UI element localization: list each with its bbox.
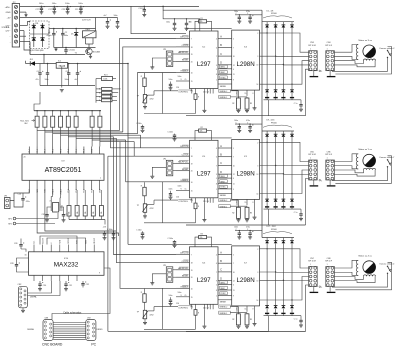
motor coil vertical [356, 260, 358, 275]
resistor R13 10k [100, 190, 102, 206]
diode D20 top [291, 238, 293, 241]
wire sense nets [230, 306, 238, 308]
MCU bottom pin 1 [28, 180, 30, 190]
wire control net [154, 306, 178, 308]
svg-text:C27: C27 [35, 9, 38, 11]
svg-text:SENSE-2: SENSE-2 [220, 307, 228, 309]
svg-text:C30: C30 [43, 285, 46, 287]
svg-text:CN6: CN6 [327, 151, 331, 153]
svg-text:CW/CCW: CW/CCW [180, 146, 189, 148]
wire L298N outputs to CN [260, 141, 268, 143]
svg-text:2: 2 [257, 249, 258, 251]
MCU top pin 17 [52, 147, 54, 155]
svg-text:8k2: 8k2 [25, 123, 28, 125]
wire Vref pin [176, 296, 190, 298]
svg-text:JP3: JP3 [163, 49, 166, 51]
svg-text:5: 5 [233, 255, 234, 257]
wire diode lower rail [264, 99, 302, 101]
wire ch2 CW/CCW run [111, 93, 177, 148]
wire ch1 CW/CCW run [120, 39, 176, 131]
MCU bottom pin 2 [36, 180, 38, 190]
MCU top pin 13 [83, 147, 85, 155]
svg-text:15: 15 [245, 309, 247, 311]
ground CN female bar [329, 180, 331, 186]
svg-text:11: 11 [233, 184, 235, 186]
wire output column [275, 243, 277, 305]
L297 bottom pins [191, 89, 193, 94]
MCU top pin 15 [67, 147, 69, 155]
svg-text:18: 18 [191, 47, 193, 49]
svg-text:15: 15 [245, 202, 247, 204]
svg-text:CN5: CN5 [310, 151, 314, 153]
svg-text:C17: C17 [48, 9, 51, 11]
wire output column [291, 137, 293, 199]
IC L297 number 6 [190, 247, 219, 304]
svg-text:100k: 100k [103, 79, 107, 81]
bridge diodes D1-D4 [33, 23, 35, 47]
wire cap feeder ch1 [163, 10, 200, 31]
diode D1 top [266, 22, 268, 25]
svg-text:L297: L297 [197, 170, 211, 177]
MCU bottom pin 3 [44, 180, 46, 190]
wire ch1 CLOCK run [123, 47, 176, 132]
svg-text:4702: 4702 [150, 99, 154, 101]
svg-text:R1OUT: R1OUT [94, 238, 96, 244]
svg-text:L298N: L298N [236, 277, 254, 284]
svg-text:INH1: INH1 [220, 282, 224, 284]
wire ch3 CW/CCW run [114, 137, 177, 255]
wire lower rail drop [268, 316, 270, 332]
svg-text:Koncno stikalo Y: Koncno stikalo Y [380, 156, 396, 159]
svg-text:C33 10n: C33 10n [138, 8, 145, 10]
motor coil horizontal [364, 59, 376, 60]
svg-text:SIP 10 F: SIP 10 F [325, 45, 333, 47]
diode D12 top [291, 131, 293, 134]
svg-text:100n: 100n [178, 292, 182, 294]
svg-text:1: 1 [216, 295, 217, 297]
diode D3 top [282, 22, 284, 25]
diode D10 top [275, 131, 277, 134]
ground DB9 [22, 308, 24, 310]
wire output column [282, 137, 284, 199]
svg-text:1: 1 [216, 80, 217, 82]
resistor R11 10k [84, 190, 86, 206]
svg-text:C16: C16 [176, 196, 179, 198]
svg-text:10k: 10k [93, 211, 95, 214]
wire limit-input verticals to resistors [117, 88, 121, 90]
svg-text:CW/CCW: CW/CCW [180, 253, 189, 255]
svg-text:SIP 10 M: SIP 10 M [308, 261, 316, 263]
svg-text:SP1: SP1 [8, 219, 12, 221]
svg-text:P1.0: P1.0 [84, 149, 86, 153]
capacitor C23 100n [113, 231, 115, 234]
capacitor C30 1u below MAX232 [39, 281, 41, 284]
diode D4 top [291, 22, 293, 25]
svg-text:1: 1 [310, 264, 311, 266]
L297 bottom pins [191, 198, 193, 203]
svg-text:4702: 4702 [150, 315, 154, 317]
resistor sense B 0R5 [245, 207, 249, 218]
resistor R control [194, 203, 197, 209]
svg-text:1k: 1k [99, 89, 101, 91]
wire ch2 CLOCK run [108, 155, 176, 157]
svg-text:2 13 14: 2 13 14 [203, 308, 209, 310]
wire: +5V top rail [20, 5, 200, 7]
svg-text:5: 5 [233, 148, 234, 150]
svg-text:IC6: IC6 [202, 262, 205, 264]
motor M1 X axis [363, 45, 376, 58]
resistor R7 [102, 95, 113, 98]
svg-text:CN2: CN2 [18, 284, 22, 286]
svg-text:IC3: IC3 [244, 47, 247, 49]
svg-text:L298N: L298N [236, 61, 254, 68]
svg-text:INH2: INH2 [220, 72, 224, 74]
svg-text:C16: C16 [176, 303, 179, 305]
wire switch leads [332, 273, 388, 287]
svg-text:13: 13 [257, 174, 259, 176]
svg-text:3: 3 [257, 56, 258, 58]
svg-text:RESET: RESET [182, 169, 189, 171]
svg-text:6: 6 [233, 178, 234, 180]
capacitor C33 10n on +5V rail [143, 6, 145, 9]
svg-text:10k: 10k [85, 211, 87, 214]
capacitor C20 [47, 207, 51, 215]
motor coil vertical [356, 154, 358, 169]
svg-text:100n: 100n [114, 15, 118, 17]
wire caps to supply rail [235, 230, 262, 232]
svg-text:8: 8 [253, 93, 254, 95]
wire sense feedback [218, 83, 232, 85]
diode D22 bottom [274, 306, 278, 309]
svg-text:4700u: 4700u [47, 35, 52, 37]
svg-text:JP1: JP1 [4, 196, 7, 198]
svg-text:240: 240 [189, 22, 192, 24]
svg-text:7: 7 [233, 47, 234, 49]
svg-text:R3: R3 [250, 103, 252, 105]
wire motor supply vertical right [261, 10, 263, 237]
wire diode top rail [262, 130, 294, 132]
wire CN3 pin to ground rail [306, 69, 309, 116]
wire control net [154, 199, 178, 201]
MCU bottom pin 6 [67, 180, 69, 190]
wire caps to supply rail [235, 123, 262, 125]
svg-text:100n: 100n [178, 186, 182, 188]
svg-text:AT89C2051: AT89C2051 [45, 167, 82, 174]
svg-text:CONTROL: CONTROL [178, 307, 189, 309]
wire resistor left bus [95, 79, 97, 103]
capacitor C22 100n [104, 231, 106, 234]
svg-text:C24: C24 [18, 194, 21, 196]
MCU bottom pin 8 [83, 180, 85, 190]
svg-text:P 1: P 1 [191, 91, 194, 93]
wire CN3 pin to ground rail [306, 179, 309, 226]
resistor RN7 8k2 [91, 111, 93, 117]
diode D18 top [275, 238, 277, 241]
svg-text:D17...D24: D17...D24 [267, 226, 277, 228]
wire lower node rail [54, 47, 96, 49]
wire JD1 node [26, 63, 31, 65]
svg-text:C26: C26 [14, 243, 17, 245]
diode D15 bottom [282, 199, 286, 202]
diode D13 bottom [265, 199, 269, 202]
diode D5 bottom [265, 90, 269, 93]
wire cable lines [53, 322, 86, 324]
svg-text:R2: R2 [232, 103, 234, 105]
svg-text:8: 8 [216, 290, 217, 292]
diode D9 top [266, 131, 268, 134]
motor coil vertical [356, 45, 358, 60]
svg-text:PC: PC [91, 342, 96, 346]
MAX232 top pin [93, 245, 95, 252]
regulator IC1 78L05 [56, 63, 67, 69]
svg-text:5: 5 [321, 181, 322, 183]
diode D14 bottom [274, 199, 278, 202]
capacitor C8 4u7 aux [107, 18, 109, 22]
terminal SP1 [13, 217, 16, 220]
capacitor C2 100n [62, 29, 64, 34]
ground L297 [203, 94, 205, 111]
wire resistor network top rail [34, 110, 101, 112]
MAX232 top pin [67, 245, 69, 252]
svg-text:INH2: INH2 [220, 181, 224, 183]
resistor R osc [143, 78, 146, 87]
diode D23 bottom [282, 306, 286, 309]
channel Z supply rail [186, 243, 232, 245]
svg-text:INH1: INH1 [220, 67, 224, 69]
resistor R4 100k [102, 77, 113, 81]
resistor R6 [102, 91, 113, 94]
wire regulator output +5V [68, 63, 129, 65]
MCU top pin 18 [44, 147, 46, 155]
resistor RN6 8k2 [75, 111, 77, 117]
wire phase lines A B C D [218, 254, 232, 256]
svg-text:R14...R21: R14...R21 [20, 120, 29, 122]
wire ch3 ENABLE run [120, 142, 176, 289]
wire switch leads [332, 58, 388, 72]
svg-text:MAX232: MAX232 [54, 262, 79, 269]
ground L297 [203, 203, 205, 220]
svg-text:18: 18 [191, 263, 193, 265]
svg-text:5: 5 [216, 178, 217, 180]
MAX232 bottom pin [76, 275, 78, 281]
capacitor C24 470u [22, 196, 24, 199]
wire lower rail drop [268, 100, 270, 116]
svg-text:C 100n: C 100n [136, 123, 142, 125]
wire MAX232 RX TX to MCU [37, 190, 118, 236]
svg-text:4: 4 [216, 255, 217, 257]
MCU bottom pin 9 [91, 180, 93, 190]
svg-text:CN1: CN1 [35, 23, 38, 25]
svg-text:16: 16 [25, 255, 27, 257]
MAX232 top pin [50, 245, 52, 252]
MAX232 bottom pin [67, 275, 69, 281]
wire relay to transistor [85, 38, 87, 44]
svg-text:D1...D8: D1...D8 [267, 10, 275, 12]
svg-text:4: 4 [216, 39, 217, 41]
resistor R12 10k [92, 190, 94, 206]
svg-text:SIP 10 M: SIP 10 M [308, 154, 316, 156]
svg-text:REL1: REL1 [86, 29, 91, 31]
L298N bottom pins [236, 90, 238, 96]
svg-text:9: 9 [233, 80, 234, 82]
wire osc resistor leads [195, 131, 199, 141]
svg-text:8: 8 [253, 309, 254, 311]
svg-text:10: 10 [233, 272, 235, 274]
resistor R control [194, 310, 197, 316]
svg-text:JP5: JP5 [163, 265, 166, 267]
MCU bottom pin 7 [75, 180, 77, 190]
wire output column [266, 137, 268, 199]
wire INH1 INH2 SYNC lines [218, 177, 232, 179]
diode D11 top [282, 131, 284, 134]
svg-text:11: 11 [233, 290, 235, 292]
connector JP3 [166, 51, 173, 67]
wire output column [275, 137, 277, 199]
svg-text:+5V: +5V [7, 18, 11, 20]
MAX232 bottom pin [50, 275, 52, 281]
svg-text:P1.1: P1.1 [76, 149, 78, 153]
svg-text:7: 7 [233, 157, 234, 159]
svg-text:CL: CL [185, 79, 187, 81]
svg-text:C6: C6 [66, 71, 68, 73]
svg-text:5: 5 [321, 71, 322, 73]
svg-text:4: 4 [216, 148, 217, 150]
channel X supply rail [186, 28, 232, 30]
svg-text:7: 7 [191, 254, 192, 256]
wire control loop frame [162, 182, 164, 223]
IC L298N number 5 [232, 139, 260, 199]
svg-text:GND: GND [6, 12, 11, 14]
svg-text:ENABLE: ENABLE [181, 179, 190, 182]
MAX232 top pin [59, 245, 61, 252]
MAX232 top pin [33, 245, 35, 252]
svg-text:Motor za Z os: Motor za Z os [359, 255, 373, 258]
resistor R8 [102, 99, 113, 102]
svg-text:9: 9 [216, 65, 217, 67]
resistor RN8 8k2 [99, 111, 101, 117]
svg-text:6: 6 [216, 47, 217, 49]
svg-text:RESET: RESET [182, 60, 189, 62]
svg-text:100n: 100n [65, 79, 69, 81]
L298N bottom pins [236, 306, 238, 312]
svg-text:HALF/FULL: HALF/FULL [178, 51, 189, 54]
svg-text:CL: CL [185, 188, 187, 190]
wire MCU VCC [92, 64, 108, 147]
wire output column [291, 243, 293, 305]
wire osc resistor leads [195, 237, 199, 247]
wire JP to pins [173, 162, 176, 164]
svg-text:13: 13 [257, 280, 259, 282]
svg-text:9: 9 [233, 189, 234, 191]
svg-text:R1: R1 [201, 18, 203, 20]
svg-text:7: 7 [191, 39, 192, 41]
svg-text:15: 15 [191, 297, 193, 299]
svg-text:R2: R2 [201, 127, 203, 129]
svg-text:CN3: CN3 [310, 42, 314, 44]
motor coil horizontal [364, 275, 376, 277]
svg-text:STIKALA: STIKALA [2, 26, 11, 29]
wire osc resistor leads [195, 21, 199, 31]
diode D8 bottom [290, 90, 294, 93]
svg-text:22k: 22k [200, 131, 203, 133]
wire SP leads [16, 213, 58, 219]
motor M2 Y axis [363, 154, 376, 167]
terminal SP2 [13, 222, 16, 225]
connector CN2 DB9FA [18, 286, 27, 308]
svg-text:RESET: RESET [182, 275, 189, 277]
svg-text:14: 14 [257, 300, 259, 302]
svg-text:CLOCK: CLOCK [182, 45, 190, 47]
svg-text:22k: 22k [200, 21, 203, 23]
svg-text:DB9F9: DB9F9 [97, 329, 103, 331]
wire L298N outputs to CN [260, 32, 268, 34]
wire diode lower rail [264, 315, 302, 317]
svg-text:14: 14 [257, 84, 259, 86]
MCU top pin 16 [60, 147, 62, 155]
wire MAX232 to cable [52, 268, 110, 320]
resistor sense B 0R5 [245, 98, 249, 109]
wire INH1 INH2 SYNC lines [218, 284, 232, 286]
svg-text:CN8: CN8 [327, 258, 331, 260]
wire ch2 ENABLE run [126, 140, 176, 182]
svg-text:8: 8 [216, 74, 217, 76]
svg-text:4702: 4702 [150, 208, 154, 210]
ground CN male bar [313, 70, 315, 76]
svg-text:IC4: IC4 [202, 156, 205, 158]
svg-text:GND: GND [99, 188, 101, 193]
wire connector to rails [20, 24, 28, 26]
ground L297 [203, 309, 205, 326]
svg-text:5: 5 [216, 69, 217, 71]
svg-text:Koncno stikalo Z: Koncno stikalo Z [380, 263, 396, 266]
resistor RN2 8k2 [44, 111, 46, 117]
svg-text:C 1u: C 1u [294, 212, 298, 214]
wire sense feedback [218, 299, 232, 301]
svg-text:100u: 100u [52, 3, 56, 5]
wire channel ground rail [186, 331, 306, 333]
transistor T1 BC546B [86, 48, 92, 54]
svg-text:1: 1 [236, 93, 237, 95]
wire sense nets [230, 199, 238, 201]
wire sense feedback [218, 192, 232, 194]
diode D2 top [275, 22, 277, 25]
svg-text:100n: 100n [169, 79, 173, 81]
svg-text:15: 15 [191, 190, 193, 192]
svg-text:9: 9 [216, 174, 217, 176]
wire bottom ground rail [108, 330, 269, 332]
wire supply branch x163 [163, 6, 262, 10]
svg-text:C4: C4 [37, 71, 39, 73]
svg-text:D5: D5 [71, 34, 73, 36]
svg-text:6: 6 [233, 285, 234, 287]
left pin labels L297 [176, 38, 190, 40]
wire pullup bottom rail to +5V [69, 219, 105, 221]
svg-text:CLOCK: CLOCK [182, 154, 190, 156]
svg-text:C2: C2 [65, 32, 67, 34]
svg-text:CN4: CN4 [327, 42, 331, 44]
diode JD1 [30, 61, 35, 66]
svg-text:SENSE-2: SENSE-2 [220, 91, 228, 93]
capacitor C32 1u below MAX232 [82, 281, 84, 284]
wire INH1 INH2 SYNC lines [218, 68, 232, 70]
wire switch leads [332, 167, 388, 181]
regulator ground [61, 67, 63, 86]
wire output column [275, 28, 277, 90]
capacitor C4 47u [39, 64, 41, 73]
wire control net [154, 90, 178, 92]
ground CN female bar [329, 286, 331, 292]
svg-text:100u: 100u [65, 3, 69, 5]
